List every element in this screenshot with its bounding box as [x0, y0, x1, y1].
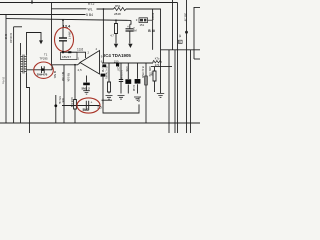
bus pin square [116, 63, 119, 66]
rotated label C57 [116, 67, 120, 72]
label T1 [44, 53, 48, 57]
svg-text:1BV47: 1BV47 [62, 55, 71, 59]
op-amp output pin square top [102, 64, 106, 67]
node J2 [103, 8, 105, 10]
net label WL [88, 8, 93, 12]
red annotation ellipse 1 [55, 28, 74, 52]
connector mark D [179, 40, 183, 43]
transformer T1 core [23, 55, 24, 74]
label 1BV47 [62, 55, 71, 59]
wire right vertical V187 [186, 0, 188, 133]
label 5M1 bold [83, 108, 89, 112]
capacitor C49 branch [129, 24, 131, 43]
branch C58 electrolytic [127, 63, 129, 94]
wire stub right of box [148, 19, 153, 21]
rotated label M561 [53, 71, 57, 79]
connector text column [184, 13, 188, 22]
wire right vertical V178 from W1 [177, 3, 179, 134]
branch C57 [120, 63, 122, 94]
wire W1 top rail [0, 2, 178, 4]
rotated label St [58, 96, 62, 105]
pin 6 label [101, 60, 103, 64]
pin 9 label [101, 55, 103, 59]
wire right vertical V175 lower [174, 50, 176, 133]
left edge rotated text [2, 77, 6, 84]
label R51 [115, 4, 121, 8]
node J6 [62, 51, 64, 53]
wire W2 to right corner [126, 9, 161, 93]
transformer T1 right winding [25, 55, 27, 73]
pin 4 label [96, 47, 98, 51]
capacitor C top lead [62, 20, 64, 38]
branch R81 [145, 63, 147, 123]
ground G4 [83, 85, 90, 94]
svg-text:WL: WL [88, 8, 93, 12]
wire W4 corner down to C49 [130, 20, 131, 24]
red annotation text 13.5 [63, 24, 72, 29]
svg-text:KTo: KTo [155, 56, 160, 60]
wire tick up from J1 [31, 0, 33, 3]
transformer T1 top-left lead [20, 43, 22, 55]
svg-text:2,5: 2,5 [97, 106, 102, 110]
svg-text:151: 151 [140, 23, 145, 27]
svg-text:0.015M5: 0.015M5 [119, 70, 123, 81]
svg-text:2B1 28: 2B1 28 [184, 13, 188, 22]
svg-text:1,7M: 1,7M [101, 66, 105, 73]
red annotation ellipse 3 [77, 98, 100, 113]
svg-text:R 4,7k(W): R 4,7k(W) [105, 67, 109, 79]
resistor R51 [114, 7, 127, 10]
svg-text:+: + [127, 25, 129, 29]
node J7 [74, 64, 76, 66]
wire supply drop from W1 [51, 3, 53, 65]
node J5 [62, 19, 64, 21]
label 5M2 2 [82, 86, 91, 90]
rotated label R81 [148, 67, 152, 78]
node dot in circle [42, 68, 45, 71]
svg-text:D: D [179, 40, 181, 44]
label B Dig bold [148, 29, 155, 33]
rotated label R68 [70, 98, 74, 108]
label 47k [110, 34, 114, 38]
node J1 on W1 [31, 1, 33, 3]
wire op-amp bottom down [102, 77, 104, 104]
resistor 270 [153, 61, 161, 64]
box top pin square [68, 51, 71, 53]
label + polarity [127, 25, 129, 29]
label 2k48 value [114, 12, 121, 16]
svg-text:STo 4u: STo 4u [58, 96, 62, 105]
red annotation circle 2 [34, 62, 54, 78]
wire W3 third rail [0, 14, 86, 16]
net label 5B4 [86, 13, 93, 17]
box 1BV47 [61, 52, 78, 59]
branch C59 electrolytic [137, 63, 139, 94]
transformer T1 bottom-left lead [20, 73, 22, 123]
label KTx [155, 56, 160, 60]
svg-text:R81 47k: R81 47k [148, 67, 152, 78]
box control unit left [14, 26, 22, 28]
bottom rail [0, 122, 200, 124]
branch R68 [74, 65, 77, 123]
svg-text:5M1: 5M1 [83, 108, 89, 112]
svg-text:M 561: M 561 [53, 71, 57, 79]
svg-text:1N4148: 1N4148 [9, 33, 13, 43]
wire left vertical V13 [13, 27, 15, 123]
wire right vertical V169 lower [168, 50, 170, 133]
label 270 [155, 63, 160, 67]
diode D42 type label [9, 33, 13, 43]
svg-text:B 504: B 504 [151, 13, 155, 20]
label 8.5 [97, 106, 102, 110]
ground G6 [157, 94, 164, 98]
rotated label 4,7k right of rail [137, 97, 141, 103]
label 10u [133, 29, 137, 33]
pin 1 label [78, 57, 80, 61]
label 150 [114, 59, 119, 63]
rotated label C59 [141, 67, 145, 79]
capacitor C bottom lead [62, 41, 64, 52]
svg-text:R68 10k: R68 10k [70, 98, 74, 108]
rotated label 468 [61, 72, 65, 81]
rotated value label 5M4.7 [68, 32, 72, 40]
svg-text:RT2: RT2 [88, 2, 94, 6]
label IC4 [104, 53, 131, 58]
node dot St [55, 95, 57, 123]
arrow A3 down [39, 40, 43, 44]
diode D42 rotated label [4, 34, 8, 40]
wire degauss loop [27, 33, 42, 56]
label 13.6 [77, 48, 83, 52]
rotated label R6 10k [66, 73, 70, 82]
ground G3 [134, 97, 141, 101]
wire W2 continuation [97, 8, 114, 10]
arrow to chassis A2 [128, 44, 132, 48]
transformer T1 bottom-right lead with jog [27, 73, 30, 133]
op-amp IC4 triangle [80, 51, 100, 75]
apex supply wire [52, 63, 81, 65]
capacitor plates in circle [42, 66, 45, 73]
label pin 3 [136, 18, 138, 22]
capacitor 5M1 plates [86, 101, 88, 111]
wire to op-amp input [63, 52, 86, 58]
wire W2 second rail [52, 8, 87, 10]
ground collector wire [102, 99, 113, 101]
branch M468 vertical [63, 65, 65, 123]
svg-text:R51: R51 [115, 4, 121, 8]
label TF295 [40, 57, 49, 61]
wire W4 fourth rail [6, 19, 131, 21]
node J4 on V187 [185, 31, 188, 34]
wire right vertical V172 upper [172, 0, 174, 50]
net label RT2 [88, 2, 94, 6]
svg-text:D42: D42 [4, 34, 8, 40]
capacitor C58 body [125, 79, 131, 84]
wire from right edge top [194, 7, 200, 59]
transformer T1 left winding [21, 55, 23, 73]
svg-text:2N4476: 2N4476 [37, 72, 48, 76]
wire under 270 [151, 66, 172, 68]
svg-text:St 4 u: St 4 u [2, 77, 6, 84]
node J3 [115, 19, 117, 21]
svg-text:2848: 2848 [114, 12, 121, 16]
capacitor 5M2 lead [86, 76, 88, 83]
label n [134, 26, 136, 30]
pin 2 label [88, 51, 90, 55]
svg-text:4,7k: 4,7k [137, 97, 141, 103]
collector rail U shape [103, 99, 139, 114]
wire vertical V152 [152, 10, 154, 50]
svg-text:B 0,47M5: B 0,47M5 [141, 67, 145, 79]
arrow to chassis A1 [114, 44, 118, 48]
wire into 5M1 circle [62, 105, 100, 107]
diode box D151 [139, 18, 148, 23]
svg-text:5M4 7: 5M4 7 [68, 32, 72, 40]
rotated label C58 [125, 67, 129, 72]
diode box inner mark [140, 19, 146, 22]
capacitor C49 plates [126, 29, 134, 31]
label 2N4476 bold [37, 72, 48, 76]
op-amp pin square bottom [101, 74, 106, 77]
capacitor 5M2 body [83, 83, 90, 86]
connector text 26 [178, 35, 182, 38]
IC pin bus [102, 62, 153, 64]
wire right horizontal H50 [161, 49, 200, 51]
ground G1 [106, 96, 113, 100]
resistor R71 branch [115, 20, 118, 43]
svg-text:4,7: 4,7 [110, 34, 114, 38]
wire vertical feed to IC pin rail [102, 9, 104, 63]
capacitor C59 body [135, 79, 141, 84]
svg-text:C58: C58 [125, 67, 129, 72]
capacitor C plates [59, 38, 67, 41]
resistor 56k branch [153, 67, 156, 92]
svg-text:TF295: TF295 [40, 57, 49, 61]
svg-text:+: + [91, 100, 93, 104]
label 151 [140, 23, 145, 27]
wire from transformer through D circle [27, 69, 53, 71]
rotated label left of B Dig [151, 13, 155, 20]
rotated label on feedback [61, 98, 65, 103]
label 2.5 [78, 68, 83, 72]
label + polarity 5M1 [91, 100, 93, 104]
rotated label 56k [150, 72, 154, 77]
svg-text:5 B4: 5 B4 [86, 13, 93, 17]
ground G2 [118, 96, 125, 100]
svg-text:2,5: 2,5 [78, 68, 83, 72]
wire corner to right edge [194, 58, 200, 60]
svg-text:0.1M: 0.1M [132, 85, 136, 92]
svg-text:B Di: B Di [148, 29, 155, 33]
rotated label R80 [101, 66, 105, 73]
svg-text:IC4 TDA1905: IC4 TDA1905 [104, 53, 131, 58]
wire short vertical V191 [190, 50, 192, 133]
svg-text:13,6: 13,6 [77, 48, 83, 52]
circle2 wire corner up [51, 65, 53, 70]
svg-text:R6 10k: R6 10k [66, 73, 70, 82]
wire left vertical V5 [5, 15, 7, 124]
capacitor C57 plates [119, 80, 123, 82]
svg-text:5M2 2: 5M2 2 [82, 86, 91, 90]
branch R80 [108, 63, 111, 94]
